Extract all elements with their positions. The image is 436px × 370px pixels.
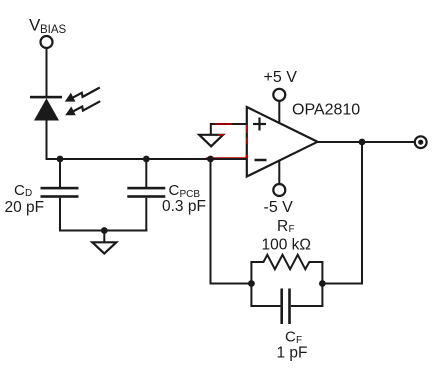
capacitor CF xyxy=(251,284,322,325)
photodiode D1 xyxy=(30,96,62,121)
wire input net horizontal xyxy=(46,158,247,160)
terminal +5V xyxy=(273,89,285,101)
svg-text:C: C xyxy=(169,182,180,199)
red tick ground G2 xyxy=(218,134,224,136)
junction feedback left xyxy=(248,280,255,287)
junction input/CPCB xyxy=(143,156,150,163)
terminal VBIAS xyxy=(41,36,53,48)
terminal output xyxy=(415,136,427,148)
red trace inverting input wire xyxy=(206,157,248,159)
terminal -5V xyxy=(273,184,285,196)
label CF xyxy=(285,329,302,347)
wire -5V supply xyxy=(278,161,280,185)
wire +input to ground xyxy=(211,124,247,135)
label CD xyxy=(14,182,32,199)
label RF xyxy=(277,218,295,235)
svg-text:20 pF: 20 pF xyxy=(5,199,45,216)
svg-text:1 pF: 1 pF xyxy=(277,345,308,362)
wire feedback left xyxy=(211,159,253,284)
svg-text:0.3 pF: 0.3 pF xyxy=(162,198,206,215)
junction input/feedback xyxy=(207,156,214,163)
svg-text:100 kΩ: 100 kΩ xyxy=(262,237,312,254)
capacitor CD xyxy=(41,159,79,232)
op-amp U1 OPA2810 xyxy=(247,107,318,177)
resistor RF xyxy=(251,255,322,284)
capacitor CPCB xyxy=(127,159,165,232)
svg-text:BIAS: BIAS xyxy=(40,24,67,36)
svg-text:D: D xyxy=(25,188,32,199)
svg-text:C: C xyxy=(14,182,25,199)
svg-text:R: R xyxy=(277,218,288,235)
wire ground stub xyxy=(103,231,105,243)
wire VBIAS to photodiode cathode xyxy=(46,49,48,97)
red trace +input xyxy=(215,123,232,125)
wire caps to ground xyxy=(59,230,147,232)
junction ground xyxy=(101,227,108,234)
junction output xyxy=(359,139,366,146)
label CPCB xyxy=(169,182,201,200)
svg-text:-5 V: -5 V xyxy=(264,199,294,216)
junction input/CD xyxy=(57,156,64,163)
light arrow 2 xyxy=(65,101,100,115)
light arrow 1 xyxy=(65,88,100,102)
svg-text:F: F xyxy=(289,224,295,235)
svg-text:OPA2810: OPA2810 xyxy=(292,102,360,119)
wire feedback right xyxy=(321,142,362,284)
svg-text:C: C xyxy=(285,329,296,346)
wire photodiode anode to input net xyxy=(46,120,48,160)
wire +5V supply xyxy=(278,101,280,124)
svg-text:+5 V: +5 V xyxy=(264,69,298,86)
wire output xyxy=(318,141,415,143)
red trace op-amp left edge xyxy=(246,125,248,158)
ground G2 xyxy=(199,135,223,147)
junction feedback right xyxy=(319,280,326,287)
ground G1 xyxy=(92,242,116,253)
node VBIAS label xyxy=(29,16,67,37)
